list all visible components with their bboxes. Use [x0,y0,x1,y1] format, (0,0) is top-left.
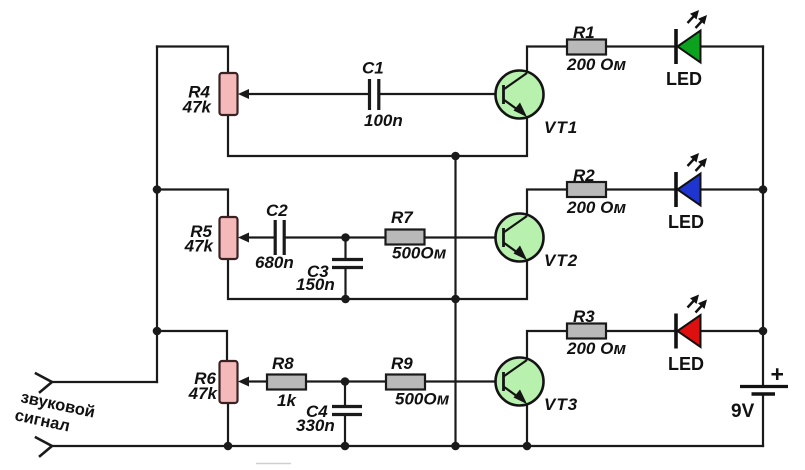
wire R3 to LED3 [606,330,676,332]
wire R5 wiper to C2 [246,236,274,238]
svg-text:C1: C1 [362,59,384,78]
svg-text:150n: 150n [296,275,335,294]
resistor R1 200 Ом [566,23,627,74]
potentiometer R5 47k [184,217,249,259]
capacitor C2 680n [255,201,294,272]
svg-text:R1: R1 [573,23,595,42]
node C4 top [341,377,350,386]
wire R9 to VT3 base [425,380,504,382]
svg-text:200 Ом: 200 Ом [566,339,627,358]
resistor R8 1k [267,354,306,410]
wire C2 to node [286,236,385,238]
resistor R7 500Ом [386,208,447,263]
svg-text:47k: 47k [188,384,219,403]
wire left vertical bus [156,47,158,383]
node C4 bottom [341,442,350,451]
wire R4 wiper to C1 [246,93,368,95]
wire C3 leads [344,238,346,260]
svg-text:+: + [771,361,784,387]
wire ch3 collector top [527,331,567,359]
node left bus ch2 [153,185,162,194]
wire LED2 to right rail [700,188,763,190]
node ch1 emitter bus junction [451,152,460,161]
wire LED3 to right rail [700,330,763,332]
transistor VT3 [496,358,579,415]
wire faint bottom mark [256,463,291,465]
svg-text:R8: R8 [272,354,294,373]
wire C4 leads [344,382,346,407]
input terminal top [36,374,52,393]
svg-text:200 Ом: 200 Ом [566,55,627,74]
resistor R9 500Ом [386,354,450,409]
svg-text:200 Ом: 200 Ом [566,198,627,217]
wire R1 to LED1 [606,45,676,47]
svg-text:47k: 47k [184,237,215,256]
capacitor C1 100n [362,59,403,131]
node mid bus rail [451,442,460,451]
svg-text:VT1: VT1 [544,118,578,137]
svg-text:680n: 680n [255,253,294,272]
LED D3 red [668,295,707,375]
transistor VT2 [496,214,579,271]
wire bottom rail [52,445,763,447]
wire VT3 emitter down [526,405,528,446]
node pot R6 bottom rail [224,442,233,451]
LED D2 blue [668,153,707,232]
node left bus ch3 [153,327,162,336]
wire ch2 collector top [527,190,567,216]
wire R2 to LED2 [606,188,676,190]
wire ch2 bottom [228,259,527,299]
svg-text:LED: LED [666,69,702,89]
wire ch1 bottom [228,115,527,156]
resistor R3 200 Ом [566,307,627,358]
wire R8 to node [306,380,386,382]
wire ch2 top left [157,190,228,218]
svg-text:500Ом: 500Ом [395,390,450,409]
wire battery bottom [762,394,764,446]
wire R6 wiper to R8 [246,380,267,382]
svg-text:100n: 100n [364,111,403,130]
potentiometer R6 47k [188,361,249,403]
svg-text:LED: LED [668,212,704,232]
svg-text:9V: 9V [731,401,755,422]
node right rail ch2 [759,185,768,194]
resistor R2 200 Ом [566,166,627,217]
node C3 top [341,233,350,242]
transistor VT1 [496,71,579,138]
wire ch3 pot bottom [227,403,229,446]
node C3 bottom [341,295,350,304]
wire middle vertical bus [454,156,456,446]
wire right vertical rail [762,47,764,386]
label input signal [13,388,96,435]
LED D1 green [666,10,707,89]
svg-text:R9: R9 [391,354,413,373]
wire LED1 to right rail [700,45,763,47]
wire ch1 top left [157,47,228,75]
wire ch1 collector top [527,47,567,73]
battery 9V [731,361,788,422]
wire ch3 top left [157,331,227,361]
node ch2 emitter bus junction [451,295,460,304]
wire R7 to VT2 base [425,236,505,238]
potentiometer R4 47k [182,73,249,117]
svg-text:500Ом: 500Ом [392,244,447,263]
svg-text:VT3: VT3 [544,395,578,414]
svg-text:LED: LED [668,354,704,374]
svg-text:C2: C2 [266,201,288,220]
svg-text:R3: R3 [573,307,595,326]
input terminal bottom [36,438,52,457]
wire C1 to VT1 base [380,93,504,95]
node VT3 emitter rail [523,442,532,451]
svg-text:1k: 1k [277,391,297,410]
svg-text:VT2: VT2 [544,251,578,270]
svg-text:R2: R2 [573,166,595,185]
wire input top to left bus [52,381,157,383]
svg-text:330n: 330n [296,416,335,435]
capacitor C3 150n [296,260,363,295]
node right rail ch3 [759,327,768,336]
svg-text:47k: 47k [182,98,213,117]
svg-text:R7: R7 [391,208,414,227]
capacitor C4 330n [296,402,362,435]
